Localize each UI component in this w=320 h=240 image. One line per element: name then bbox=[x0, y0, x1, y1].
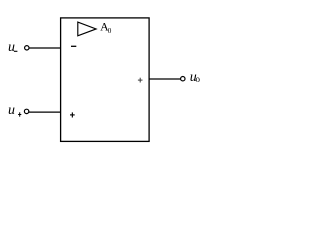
label u+ (non-inverting input) bbox=[8, 103, 21, 118]
plus sign (non-inverting input mark) bbox=[70, 112, 75, 117]
terminal uo (open circle) bbox=[181, 77, 185, 81]
wire u- input bbox=[29, 47, 60, 49]
terminal u+ (open circle) bbox=[24, 109, 28, 113]
label A0 (gain) bbox=[100, 19, 112, 35]
minus sign (inverting input mark) bbox=[71, 45, 76, 47]
svg-text:0: 0 bbox=[108, 27, 112, 35]
svg-text:o: o bbox=[196, 74, 201, 84]
amplifier block U1 (rectangle body) bbox=[61, 18, 150, 141]
svg-text:u: u bbox=[8, 103, 15, 118]
label u- (inverting input) bbox=[8, 40, 17, 55]
wire u+ input bbox=[29, 111, 60, 113]
wire output bbox=[149, 78, 181, 80]
svg-text:u: u bbox=[8, 40, 15, 55]
amplifier triangle symbol bbox=[78, 22, 96, 36]
plus sign (output polarity mark) bbox=[138, 78, 143, 83]
terminal u- (open circle) bbox=[25, 46, 29, 50]
label uo (output) bbox=[190, 70, 201, 85]
